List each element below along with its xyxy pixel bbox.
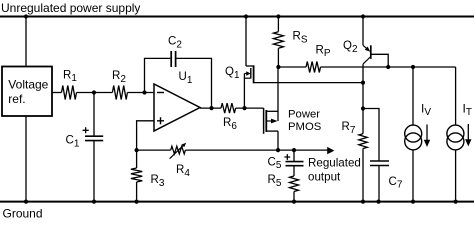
capacitor C2 — [168, 36, 182, 68]
wire sense node to RP — [278, 66, 306, 68]
wire node C to R3 — [136, 150, 138, 168]
capacitor C1 — [66, 127, 104, 149]
wire R4 to regulated output node — [185, 149, 327, 151]
svg-text:RS: RS — [293, 31, 308, 46]
resistor R6 — [221, 103, 237, 132]
wire R1 to node A — [77, 92, 113, 94]
wire node A to C1 — [93, 93, 95, 137]
svg-text:C5: C5 — [268, 156, 282, 171]
svg-text:R6: R6 — [223, 117, 237, 132]
junction IV/ground — [411, 200, 415, 204]
svg-text:C2: C2 — [168, 36, 182, 51]
wire node C to R4 — [137, 149, 171, 151]
resistor RP — [306, 44, 331, 72]
junction C2 feedback/output — [209, 106, 213, 110]
wire C5 to R5 — [293, 166, 295, 176]
svg-text:IT: IT — [463, 101, 472, 118]
resistor R7 — [342, 121, 368, 148]
svg-text:C7: C7 — [389, 176, 403, 191]
svg-text:Voltage: Voltage — [8, 78, 48, 92]
wire voltage ref to ground — [25, 116, 27, 202]
svg-text:R1: R1 — [63, 69, 77, 84]
node sense junction (RS/RP/PMOS source) — [276, 65, 280, 69]
junction supply/vref — [24, 14, 28, 18]
svg-text:R3: R3 — [151, 174, 165, 189]
node: ground rail — [0, 201, 474, 203]
junction output/C5 — [292, 148, 296, 152]
wire RS to sense node — [277, 48, 279, 67]
junction R7/ground — [361, 200, 365, 204]
wire Q2 collector down — [362, 64, 364, 108]
capacitor C5 — [268, 154, 304, 171]
transistor Q1 (PMOS) — [225, 17, 254, 109]
junction IT/ground — [454, 200, 458, 204]
junction IV/bias line — [411, 65, 415, 69]
wire R5 to ground — [293, 192, 295, 202]
node C junction (R3/R4/+input) — [135, 148, 139, 152]
svg-text:PMOS: PMOS — [288, 121, 322, 133]
current source IV — [405, 101, 432, 150]
wire supply rail to RS — [277, 17, 279, 32]
junction PMOS drain/output line — [276, 148, 280, 152]
svg-text:IV: IV — [421, 101, 431, 118]
wire op-amp output — [200, 107, 221, 109]
wire bias line to IV — [412, 67, 414, 125]
resistor R2 — [112, 70, 127, 100]
wire R6 to PMOS gate — [236, 107, 264, 109]
transistor Power PMOS — [264, 108, 322, 134]
wire output node to C5 — [293, 150, 295, 162]
svg-text:U1: U1 — [179, 71, 193, 86]
node A junction (R1/R2/C1) — [92, 90, 96, 94]
wire RP to bias line — [321, 66, 456, 68]
wire C1 to ground — [93, 141, 95, 202]
node: unregulated supply rail — [0, 16, 474, 18]
svg-text:ref.: ref. — [8, 92, 25, 106]
svg-text:Power: Power — [288, 108, 320, 120]
svg-text:R2: R2 — [112, 70, 126, 85]
wire IT to ground — [455, 150, 457, 202]
svg-text:Regulated: Regulated — [308, 156, 361, 169]
wire op-amp + input down to node C — [137, 121, 154, 150]
label: Ground — [3, 207, 43, 221]
resistor R4 (variable) — [170, 143, 191, 179]
label: Unregulated power supply — [1, 1, 140, 15]
capacitor C7 — [370, 161, 403, 191]
op-amp U1 — [154, 71, 200, 131]
wire vref to R1 — [52, 92, 62, 94]
svg-text:Q2: Q2 — [343, 40, 358, 55]
wire supply rail to voltage ref — [25, 17, 27, 68]
junction C7/ground — [376, 200, 380, 204]
junction Q2 base/bias line — [386, 65, 390, 69]
junction vref/ground — [24, 200, 28, 204]
svg-text:R5: R5 — [268, 174, 282, 189]
wire PMOS drain to output node — [277, 131, 279, 150]
regulated output arrow — [308, 147, 361, 184]
wire node to C7 — [363, 109, 379, 162]
transistor Q2 (PNP) — [343, 17, 388, 68]
svg-text:output: output — [308, 170, 341, 183]
junction R5/ground — [292, 200, 296, 204]
junction Q1 drain/supply rail — [244, 14, 248, 18]
svg-text:RP: RP — [316, 44, 331, 59]
voltage reference block — [2, 67, 52, 117]
svg-text:C1: C1 — [66, 135, 80, 150]
junction Q1 drain/Q2 collector — [361, 81, 365, 85]
junction C1/ground — [92, 200, 96, 204]
svg-text:Unregulated power supply: Unregulated power supply — [1, 1, 140, 15]
svg-text:Ground: Ground — [3, 207, 43, 220]
resistor R1 — [62, 69, 78, 99]
resistor RS — [273, 31, 307, 49]
junction Q2 emitter/supply rail — [361, 14, 365, 18]
current source IT — [447, 101, 472, 150]
wire R2 to op-amp inverting input — [127, 92, 154, 94]
junction Q1 gate/R6 line — [242, 106, 246, 110]
wire Q1 drain to Q2 collector line — [254, 82, 364, 84]
wire R7 to ground — [362, 149, 364, 202]
wire node B up to C2 — [145, 58, 171, 92]
node B junction (R2/C2/op-amp) — [142, 90, 146, 94]
junction R7/C7 node — [361, 106, 365, 110]
svg-text:R4: R4 — [176, 164, 190, 179]
junction RS/supply rail — [276, 14, 280, 18]
wire C2 to op-amp output — [177, 58, 212, 108]
wire sense node to PMOS source/body — [277, 67, 279, 121]
resistor R3 — [131, 168, 165, 189]
wire node to R7 — [362, 109, 364, 134]
svg-text:Q1: Q1 — [225, 66, 240, 81]
wire R3 to ground — [136, 182, 138, 202]
svg-text:R7: R7 — [342, 121, 356, 136]
junction R3/ground — [135, 200, 139, 204]
wire C7 to ground — [378, 166, 380, 202]
wire bias line corner to IT — [455, 67, 457, 125]
resistor R5 — [268, 174, 299, 192]
wire IV to ground — [412, 150, 414, 202]
